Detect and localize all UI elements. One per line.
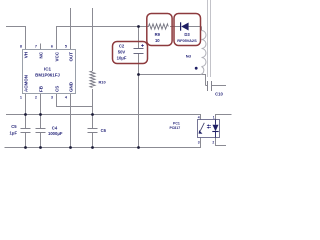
svg-text:IC1: IC1: [44, 67, 52, 72]
svg-text:1μF: 1μF: [10, 131, 18, 136]
svg-text:D3: D3: [184, 32, 190, 37]
svg-text:6: 6: [51, 44, 53, 48]
svg-text:3: 3: [198, 140, 200, 144]
svg-text:PC1: PC1: [173, 121, 180, 125]
svg-text:OUT: OUT: [68, 52, 73, 62]
svg-text:Nd: Nd: [186, 54, 192, 59]
svg-text:BM1P061FJ: BM1P061FJ: [35, 73, 60, 78]
svg-text:2: 2: [35, 96, 37, 100]
svg-text:7: 7: [35, 44, 37, 48]
svg-text:C5: C5: [11, 124, 17, 129]
svg-text:R10: R10: [99, 80, 106, 85]
svg-text:10: 10: [155, 38, 160, 43]
svg-text:50V: 50V: [118, 50, 126, 55]
svg-text:CS: CS: [54, 86, 59, 92]
svg-text:8: 8: [20, 44, 22, 48]
svg-text:GND: GND: [68, 81, 73, 92]
svg-text:3: 3: [51, 96, 53, 100]
svg-text:FB: FB: [38, 85, 43, 92]
svg-text:C4: C4: [52, 125, 58, 130]
svg-text:10μF: 10μF: [117, 56, 127, 61]
svg-text:ACMON: ACMON: [23, 75, 28, 92]
svg-text:1000μF: 1000μF: [48, 131, 63, 136]
svg-text:R9: R9: [155, 32, 161, 37]
svg-text:5: 5: [65, 44, 67, 48]
svg-text:1: 1: [20, 96, 22, 100]
svg-text:C6: C6: [101, 128, 107, 133]
svg-text:VH: VH: [23, 52, 28, 58]
svg-text:C10: C10: [215, 92, 223, 97]
svg-text:1: 1: [213, 116, 215, 120]
svg-text:NC: NC: [38, 51, 43, 58]
svg-text:RF05VA2S: RF05VA2S: [177, 38, 197, 43]
svg-text:VCC: VCC: [54, 51, 59, 61]
svg-text:C2: C2: [119, 44, 125, 49]
svg-text:PC817: PC817: [169, 126, 180, 130]
svg-text:4: 4: [198, 116, 200, 120]
svg-text:2: 2: [212, 140, 214, 144]
